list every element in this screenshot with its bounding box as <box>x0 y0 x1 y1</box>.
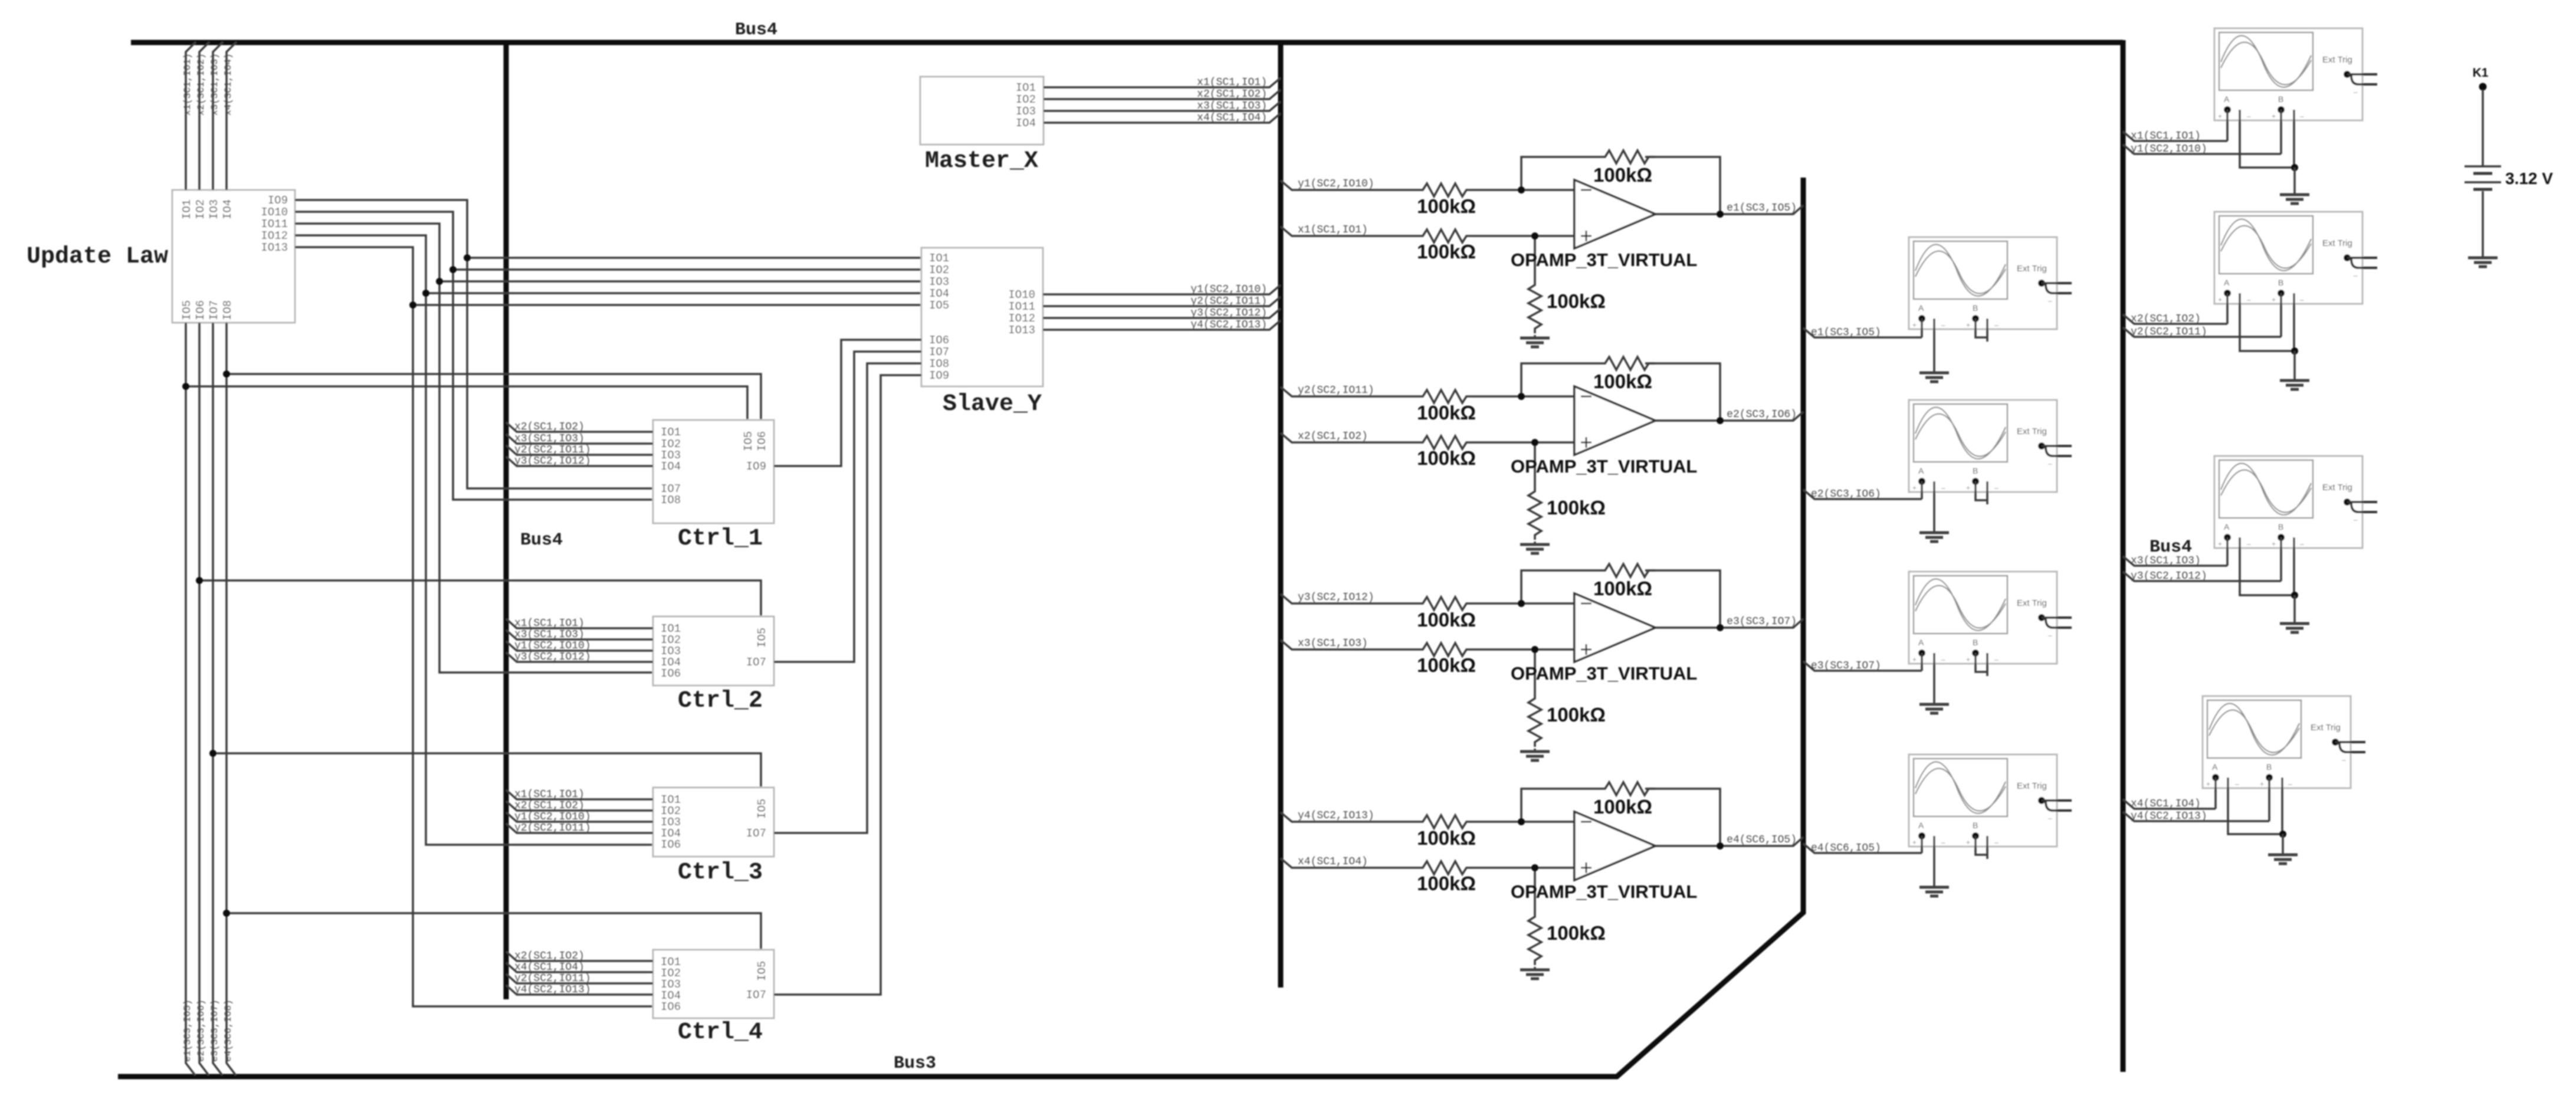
junction at (361,1277) <box>209 750 216 757</box>
wire branch to Slave_Y input at y=477 <box>439 280 921 283</box>
wire branch to Slave_Y input at y=517 <box>413 304 921 306</box>
wire net x2(SC1,IO2) bus exit to Ctrl input <box>506 952 653 961</box>
svg-text:y1(SC2,IO10): y1(SC2,IO10) <box>1298 178 1374 190</box>
wire scope XSC3 B terminals shorted stub <box>1976 653 1987 676</box>
wire net x2(SC1,IO2) from Update Law to Bus4 <box>199 42 209 190</box>
junction on IO13 drop at (700,517) <box>409 301 416 309</box>
wire from node K1 to battery V1 <box>2482 90 2484 166</box>
wire net x2(SC1,IO2) from Bus4 to scope A input <box>2123 293 2227 324</box>
svg-text:y2(SC2,IO11): y2(SC2,IO11) <box>514 444 591 456</box>
wire net e1(SC3,IO5) from Update Law bottom pin to Bus3 <box>186 323 195 1075</box>
svg-text:y1(SC2,IO10): y1(SC2,IO10) <box>514 811 591 823</box>
svg-text:Ctrl_1: Ctrl_1 <box>678 526 763 552</box>
wire net e2(SC3,IO6) from Bus3 to scope A input <box>1803 481 1922 499</box>
svg-text:IO2: IO2 <box>1016 93 1036 106</box>
wire from Ctrl_1 IO9 up to Slave_Y <box>774 340 921 466</box>
wire net y4(SC2,IO13) from Slave_Y to middle bus <box>1043 320 1281 330</box>
wire net x3(SC1,IO3) from Bus4 to scope A input <box>2123 537 2227 566</box>
svg-text:x2(SC1,IO2): x2(SC1,IO2) <box>196 53 206 116</box>
svg-text:IO5: IO5 <box>742 431 755 451</box>
junction at (315,655) <box>182 383 189 390</box>
svg-text:Bus4: Bus4 <box>2150 537 2192 557</box>
block Slave_Y <box>921 248 1043 386</box>
wire net y1(SC2,IO10) bus exit to Ctrl input <box>506 812 653 822</box>
svg-text:IO6: IO6 <box>194 300 207 320</box>
ground symbol scope XSC4 <box>1919 887 1949 896</box>
svg-text:y4(SC2,IO13): y4(SC2,IO13) <box>1190 319 1267 331</box>
wire net x3(SC1,IO3) from Master_X to middle bus <box>1043 101 1281 111</box>
svg-text:y4(SC2,IO13): y4(SC2,IO13) <box>1298 810 1374 822</box>
svg-text:OPAMP_3T_VIRTUAL: OPAMP_3T_VIRTUAL <box>1511 456 1697 477</box>
svg-text:IO6: IO6 <box>661 838 681 851</box>
svg-text:100kΩ: 100kΩ <box>1593 164 1652 186</box>
ground symbol scope XSC5 <box>2280 195 2309 204</box>
svg-text:y2(SC2,IO11): y2(SC2,IO11) <box>2131 326 2207 338</box>
svg-text:100kΩ: 100kΩ <box>1547 290 1606 312</box>
svg-text:e2(SC3,IO6): e2(SC3,IO6) <box>1727 409 1797 421</box>
bus Bus4 left vertical branch <box>504 41 509 999</box>
svg-text:IO5: IO5 <box>756 799 769 819</box>
wire net y2(SC2,IO11) bus exit to Ctrl input <box>506 974 653 983</box>
wire net x2(SC1,IO2) from Master_X to middle bus <box>1043 90 1281 99</box>
oscilloscope XSC1 (left column) <box>1909 237 2072 329</box>
op-amp U1 OPAMP_3T_VIRTUAL with input/feedback/ground resistors <box>1281 150 1803 347</box>
svg-text:IO4: IO4 <box>221 199 234 219</box>
svg-text:IO7: IO7 <box>746 656 766 669</box>
svg-text:IO1: IO1 <box>661 426 681 439</box>
wire net e4(SC6,IO5) from Bus3 to scope A input <box>1803 836 1922 853</box>
wire net x1(SC1,IO1) from Master_X to middle bus <box>1043 78 1281 87</box>
ground symbol scope XSC6 <box>2280 380 2309 389</box>
svg-text:IO8: IO8 <box>221 300 234 320</box>
svg-text:x1(SC1,IO1): x1(SC1,IO1) <box>514 789 585 801</box>
svg-text:y2(SC2,IO11): y2(SC2,IO11) <box>1190 296 1267 307</box>
junction on IO12 drop at (722,497) <box>422 290 429 297</box>
ground symbol scope XSC7 <box>2280 624 2309 632</box>
svg-text:y3(SC2,IO12): y3(SC2,IO12) <box>2131 570 2207 582</box>
svg-text:100kΩ: 100kΩ <box>1417 241 1476 263</box>
svg-text:x2(SC1,IO2): x2(SC1,IO2) <box>514 950 585 962</box>
junction at (384,1548) <box>223 910 230 917</box>
wire net y3(SC2,IO12) from Bus4 to scope B input <box>2123 537 2281 581</box>
junction scope XSC6 ground node <box>2291 347 2298 355</box>
op-amp U3 OPAMP_3T_VIRTUAL with input/feedback/ground resistors <box>1281 564 1803 760</box>
svg-text:y1(SC2,IO10): y1(SC2,IO10) <box>514 640 591 652</box>
oscilloscope XSC3 (left column) <box>1909 572 2072 664</box>
svg-text:100kΩ: 100kΩ <box>1417 195 1476 217</box>
wire scope XSC2 A- to ground <box>1933 481 1935 533</box>
wire from Update Law IO9 down to Ctrl block input <box>295 200 653 488</box>
svg-text:x1(SC1,IO1): x1(SC1,IO1) <box>1197 77 1267 88</box>
wire net e3(SC3,IO7) from Update Law bottom pin to Bus3 <box>213 323 222 1075</box>
wire net x3(SC1,IO3) bus exit to Ctrl input <box>506 434 653 444</box>
wire branch to Slave_Y input at y=497 <box>426 292 921 294</box>
svg-text:IO7: IO7 <box>746 827 766 840</box>
svg-text:x3(SC1,IO3): x3(SC1,IO3) <box>1298 638 1368 649</box>
wire from Update Law IO11 down to Ctrl block input <box>295 224 653 672</box>
ground symbol battery <box>2468 258 2498 267</box>
block Update Law (hierarchical block HB1) <box>172 190 295 323</box>
wire net e2(SC3,IO6) from Update Law bottom pin to Bus3 <box>199 323 209 1075</box>
wire net y3(SC2,IO12) from Slave_Y to middle bus <box>1043 309 1281 318</box>
svg-text:IO2: IO2 <box>194 199 207 219</box>
wire scope XSC1 B terminals shorted stub <box>1976 319 1987 342</box>
svg-text:IO12: IO12 <box>261 229 288 242</box>
wire branch to Slave_Y input at y=457 <box>453 268 921 271</box>
oscilloscope XSC6 (right column) <box>2214 212 2377 304</box>
wire scope XSC5 A-/B- to common ground node <box>2240 110 2295 168</box>
wire net y4(SC2,IO13) from Bus4 to scope B input <box>2123 777 2269 821</box>
svg-text:OPAMP_3T_VIRTUAL: OPAMP_3T_VIRTUAL <box>1511 250 1697 270</box>
wire net x1(SC1,IO1) from Update Law to Bus4 <box>186 42 196 190</box>
wire from Ctrl_4 IO7 up to Slave_Y <box>774 375 921 995</box>
wire net x1(SC1,IO1) bus exit to Ctrl input <box>506 619 653 628</box>
ground symbol scope XSC8 <box>2268 855 2298 864</box>
svg-text:IO11: IO11 <box>261 218 288 231</box>
svg-text:IO2: IO2 <box>929 264 949 277</box>
svg-text:IO6: IO6 <box>756 431 769 451</box>
svg-text:x3(SC1,IO3): x3(SC1,IO3) <box>514 433 585 445</box>
wire from Update Law IO13 down to Ctrl block input <box>295 247 653 1006</box>
svg-text:100kΩ: 100kΩ <box>1417 447 1476 469</box>
wire tap Update Law IO8 to Ctrl_4 IO5 (top) <box>227 913 761 950</box>
svg-text:IO13: IO13 <box>261 241 288 254</box>
svg-text:y3(SC2,IO12): y3(SC2,IO12) <box>514 455 591 467</box>
wire scope XSC1 A- to ground <box>1933 319 1935 373</box>
oscilloscope XSC4 (left column) <box>1909 754 2072 847</box>
svg-text:IO9: IO9 <box>268 194 288 207</box>
wire from battery V1 to ground <box>2482 191 2484 257</box>
wire net e3(SC3,IO7) from Bus3 to scope A input <box>1803 653 1922 671</box>
svg-text:Ctrl_4: Ctrl_4 <box>678 1019 763 1046</box>
svg-text:x4(SC1,IO4): x4(SC1,IO4) <box>223 53 234 116</box>
svg-text:y2(SC2,IO11): y2(SC2,IO11) <box>514 973 591 985</box>
svg-text:e4(SC6,IO5): e4(SC6,IO5) <box>1727 834 1797 846</box>
svg-text:IO11: IO11 <box>1008 300 1035 313</box>
wire scope XSC4 A- to ground <box>1933 836 1935 887</box>
svg-text:y4(SC2,IO13): y4(SC2,IO13) <box>2131 811 2207 822</box>
svg-text:Update Law: Update Law <box>27 244 168 270</box>
wire net y3(SC2,IO12) bus exit to Ctrl input <box>506 652 653 662</box>
svg-text:IO8: IO8 <box>929 357 949 370</box>
bus Bus4 (top horizontal + right vertical) <box>131 40 2123 1072</box>
junction at (338,984) <box>196 577 203 584</box>
svg-text:x2(SC1,IO2): x2(SC1,IO2) <box>1298 431 1368 442</box>
svg-text:100kΩ: 100kΩ <box>1547 497 1606 519</box>
svg-text:IO5: IO5 <box>929 299 949 312</box>
wire from Update Law IO12 down to Ctrl block input <box>295 235 653 845</box>
svg-text:e1(SC3,IO5): e1(SC3,IO5) <box>182 999 193 1062</box>
svg-text:IO1: IO1 <box>1016 81 1036 94</box>
wire net e4(SC6,IO8) from Update Law bottom pin to Bus3 <box>227 323 236 1075</box>
svg-text:e4(SC6,IO8): e4(SC6,IO8) <box>223 999 234 1062</box>
svg-text:K1: K1 <box>2473 66 2489 80</box>
wire net y2(SC2,IO11) from Slave_Y to middle bus <box>1043 297 1281 306</box>
svg-text:Bus3: Bus3 <box>894 1054 936 1074</box>
wire net y3(SC2,IO12) bus exit to Ctrl input <box>506 457 653 466</box>
svg-text:OPAMP_3T_VIRTUAL: OPAMP_3T_VIRTUAL <box>1511 881 1697 902</box>
wire net y2(SC2,IO11) bus exit to Ctrl input <box>506 824 653 833</box>
wire scope XSC7 A-/B- to common ground node <box>2240 537 2295 595</box>
svg-text:x3(SC1,IO3): x3(SC1,IO3) <box>514 629 585 641</box>
battery V1 3.12 V <box>2465 166 2501 182</box>
svg-text:OPAMP_3T_VIRTUAL: OPAMP_3T_VIRTUAL <box>1511 663 1697 684</box>
junction on IO10 drop at (768,457) <box>449 266 457 273</box>
svg-text:e1(SC3,IO5): e1(SC3,IO5) <box>1811 327 1881 339</box>
svg-text:IO7: IO7 <box>746 989 766 1002</box>
svg-text:IO5: IO5 <box>756 628 769 648</box>
junction scope XSC8 ground node <box>2279 831 2286 838</box>
svg-text:x4(SC1,IO4): x4(SC1,IO4) <box>514 962 585 973</box>
svg-text:y3(SC2,IO12): y3(SC2,IO12) <box>1190 307 1267 319</box>
svg-text:100kΩ: 100kΩ <box>1417 609 1476 631</box>
node K1 connector dot <box>2479 83 2487 91</box>
svg-text:x2(SC1,IO2): x2(SC1,IO2) <box>514 421 585 433</box>
svg-text:IO13: IO13 <box>1008 324 1035 337</box>
svg-text:x1(SC1,IO1): x1(SC1,IO1) <box>2131 130 2201 142</box>
svg-text:IO9: IO9 <box>746 460 766 473</box>
svg-text:x1(SC1,IO1): x1(SC1,IO1) <box>182 53 193 116</box>
ground symbol scope XSC1 <box>1919 373 1949 382</box>
block Ctrl_1 <box>653 420 774 523</box>
wire tap Update Law IO7 to Ctrl_3 IO5 (top) <box>213 753 761 788</box>
block Ctrl_2 <box>653 616 774 685</box>
svg-text:3.12 V: 3.12 V <box>2505 169 2553 188</box>
block Master_X <box>920 77 1043 145</box>
op-amp U2 OPAMP_3T_VIRTUAL with input/feedback/ground resistors <box>1281 357 1803 553</box>
svg-text:Ctrl_2: Ctrl_2 <box>678 688 763 714</box>
svg-text:x3(SC1,IO3): x3(SC1,IO3) <box>209 53 220 116</box>
wire net x4(SC1,IO4) from Update Law to Bus4 <box>227 42 237 190</box>
svg-text:e2(SC3,IO6): e2(SC3,IO6) <box>196 999 206 1062</box>
svg-text:Master_X: Master_X <box>925 148 1038 175</box>
svg-text:IO7: IO7 <box>208 300 221 320</box>
wire net y1(SC2,IO10) from Bus4 to scope B input <box>2123 110 2281 154</box>
wire net x1(SC1,IO1) from Bus4 to scope A input <box>2123 110 2227 141</box>
svg-text:100kΩ: 100kΩ <box>1417 402 1476 424</box>
wire net y4(SC2,IO13) bus exit to Ctrl input <box>506 985 653 995</box>
svg-text:e2(SC3,IO6): e2(SC3,IO6) <box>1811 488 1881 500</box>
svg-text:IO1: IO1 <box>929 252 949 265</box>
wire net y1(SC2,IO10) from Slave_Y to middle bus <box>1043 285 1281 294</box>
wire net x4(SC1,IO4) from Bus4 to scope A input <box>2123 777 2216 809</box>
svg-text:IO3: IO3 <box>929 275 949 288</box>
svg-text:IO5: IO5 <box>756 961 769 981</box>
svg-text:IO8: IO8 <box>661 494 681 507</box>
svg-text:y2(SC2,IO11): y2(SC2,IO11) <box>514 822 591 834</box>
svg-text:IO6: IO6 <box>929 334 949 347</box>
svg-text:IO10: IO10 <box>261 206 288 219</box>
svg-text:100kΩ: 100kΩ <box>1417 827 1476 849</box>
svg-text:x4(SC1,IO4): x4(SC1,IO4) <box>1298 856 1368 868</box>
junction scope XSC7 ground node <box>2291 592 2298 599</box>
svg-text:y1(SC2,IO10): y1(SC2,IO10) <box>1190 284 1267 296</box>
wire net x4(SC1,IO4) bus exit to Ctrl input <box>506 963 653 972</box>
wire tap Update Law IO5 to Ctrl_1 IO5 (top) <box>186 386 747 420</box>
svg-text:IO6: IO6 <box>661 667 681 680</box>
svg-text:x2(SC1,IO2): x2(SC1,IO2) <box>1197 88 1267 100</box>
svg-text:100kΩ: 100kΩ <box>1593 578 1652 599</box>
oscilloscope XSC7 (right column) <box>2214 456 2377 548</box>
junction scope XSC5 ground node <box>2291 164 2298 171</box>
svg-text:Bus4: Bus4 <box>520 530 563 550</box>
junction on IO11 drop at (745,477) <box>436 278 443 285</box>
wire tap Update Law IO8 to Ctrl_1 IO6 (top) <box>227 374 761 420</box>
wire net e1(SC3,IO5) from Bus3 to scope A input <box>1803 319 1922 337</box>
block Ctrl_3 <box>653 788 774 857</box>
svg-text:e3(SC3,IO7): e3(SC3,IO7) <box>1727 616 1797 628</box>
svg-text:100kΩ: 100kΩ <box>1547 922 1606 944</box>
svg-text:IO6: IO6 <box>661 1000 681 1013</box>
svg-text:y4(SC2,IO13): y4(SC2,IO13) <box>514 984 591 996</box>
wire net x4(SC1,IO4) from Master_X to middle bus <box>1043 113 1281 123</box>
svg-text:IO4: IO4 <box>1016 117 1036 130</box>
svg-text:IO7: IO7 <box>929 346 949 359</box>
svg-text:y1(SC2,IO10): y1(SC2,IO10) <box>2131 143 2207 155</box>
wire scope XSC5 ground stem <box>2293 168 2296 195</box>
svg-text:IO3: IO3 <box>1016 105 1036 118</box>
wire scope XSC8 A-/B- to common ground node <box>2228 777 2283 834</box>
wire tap Update Law IO6 to Ctrl_2 IO5 (top) <box>199 580 761 616</box>
svg-text:x2(SC1,IO2): x2(SC1,IO2) <box>514 800 585 812</box>
wire branch to Slave_Y input at y=437 <box>467 257 921 259</box>
wire scope XSC2 B terminals shorted stub <box>1976 481 1987 504</box>
svg-text:100kΩ: 100kΩ <box>1417 654 1476 676</box>
op-amp U4 OPAMP_3T_VIRTUAL with input/feedback/ground resistors <box>1281 782 1803 979</box>
svg-text:e4(SC6,IO5): e4(SC6,IO5) <box>1811 842 1881 854</box>
wire net x3(SC1,IO3) from Update Law to Bus4 <box>213 42 223 190</box>
svg-text:y3(SC2,IO12): y3(SC2,IO12) <box>1298 592 1374 603</box>
svg-text:x1(SC1,IO1): x1(SC1,IO1) <box>514 618 585 629</box>
wire from Update Law IO10 down to Ctrl block input <box>295 212 653 500</box>
svg-text:x4(SC1,IO4): x4(SC1,IO4) <box>1197 112 1267 124</box>
wire net y1(SC2,IO10) bus exit to Ctrl input <box>506 641 653 651</box>
wire from Ctrl_3 IO7 up to Slave_Y <box>774 363 921 833</box>
bus Bus2 middle vertical <box>1278 41 1284 988</box>
svg-text:IO4: IO4 <box>661 460 681 473</box>
svg-text:x4(SC1,IO4): x4(SC1,IO4) <box>2131 798 2201 810</box>
svg-text:x3(SC1,IO3): x3(SC1,IO3) <box>1197 100 1267 112</box>
svg-text:IO1: IO1 <box>181 199 193 219</box>
svg-text:x3(SC1,IO3): x3(SC1,IO3) <box>2131 555 2201 567</box>
svg-text:100kΩ: 100kΩ <box>1417 872 1476 894</box>
svg-text:y2(SC2,IO11): y2(SC2,IO11) <box>1298 385 1374 396</box>
wire scope XSC4 B terminals shorted stub <box>1976 836 1987 859</box>
wire net x2(SC1,IO2) bus exit to Ctrl input <box>506 801 653 811</box>
svg-text:IO10: IO10 <box>1008 288 1035 301</box>
bus Bus3 (bottom horizontal + diagonal + opamp output vertical) <box>118 178 1803 1077</box>
svg-text:100kΩ: 100kΩ <box>1593 796 1652 818</box>
wire from Ctrl_2 IO7 up to Slave_Y <box>774 352 921 662</box>
wire net x2(SC1,IO2) bus exit to Ctrl input <box>506 422 653 432</box>
junction at (384,634) <box>223 370 230 378</box>
block Ctrl_4 <box>653 950 774 1018</box>
wire scope XSC6 ground stem <box>2293 351 2296 380</box>
wire net x1(SC1,IO1) bus exit to Ctrl input <box>506 790 653 799</box>
wire net y2(SC2,IO11) bus exit to Ctrl input <box>506 445 653 455</box>
svg-text:100kΩ: 100kΩ <box>1593 370 1652 392</box>
svg-text:x1(SC1,IO1): x1(SC1,IO1) <box>1298 224 1368 236</box>
svg-text:Ctrl_3: Ctrl_3 <box>678 859 763 886</box>
ground symbol scope XSC2 <box>1919 533 1949 542</box>
wire scope XSC7 ground stem <box>2293 595 2296 624</box>
svg-text:y3(SC2,IO12): y3(SC2,IO12) <box>514 651 591 663</box>
svg-text:100kΩ: 100kΩ <box>1547 704 1606 726</box>
svg-text:e3(SC3,IO7): e3(SC3,IO7) <box>209 999 220 1062</box>
svg-text:e3(SC3,IO7): e3(SC3,IO7) <box>1811 660 1881 672</box>
wire scope XSC8 ground stem <box>2282 834 2284 855</box>
wire net y2(SC2,IO11) from Bus4 to scope B input <box>2123 293 2281 337</box>
oscilloscope XSC5 (right column) <box>2214 28 2377 120</box>
svg-text:IO9: IO9 <box>929 369 949 382</box>
oscilloscope XSC2 (left column) <box>1909 400 2072 492</box>
wire scope XSC3 A- to ground <box>1933 653 1935 704</box>
junction on IO9 drop at (792,437) <box>464 254 471 261</box>
svg-text:IO3: IO3 <box>208 199 221 219</box>
svg-text:x2(SC1,IO2): x2(SC1,IO2) <box>2131 313 2201 325</box>
svg-text:IO12: IO12 <box>1008 312 1035 325</box>
wire net x3(SC1,IO3) bus exit to Ctrl input <box>506 630 653 639</box>
oscilloscope XSC8 (right column) <box>2203 696 2365 788</box>
ground symbol scope XSC3 <box>1919 704 1949 713</box>
svg-text:IO4: IO4 <box>929 287 949 300</box>
svg-text:IO5: IO5 <box>181 300 193 320</box>
svg-text:e1(SC3,IO5): e1(SC3,IO5) <box>1727 202 1797 214</box>
wire scope XSC6 A-/B- to common ground node <box>2240 293 2295 351</box>
svg-text:Slave_Y: Slave_Y <box>943 391 1042 418</box>
svg-text:Bus4: Bus4 <box>735 20 777 40</box>
